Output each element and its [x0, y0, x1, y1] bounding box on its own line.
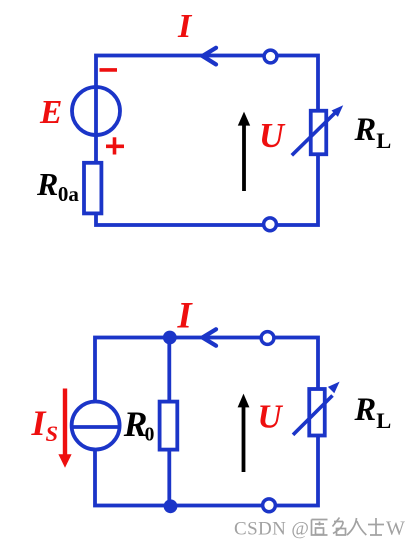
svg-text:W: W — [386, 518, 405, 540]
watermark glyph ren — [347, 518, 366, 535]
terminal node top right circuit 2 — [261, 332, 274, 345]
terminal node bottom right circuit 2 — [263, 499, 276, 512]
variable resistor RL circuit 1 — [292, 105, 343, 155]
terminal node bottom circuit 1 — [264, 218, 277, 231]
current arrowhead I circuit 1 — [203, 48, 217, 65]
terminal node top circuit 1 — [264, 50, 277, 63]
resistor R0a — [84, 163, 101, 214]
polarity minus sign — [100, 68, 118, 72]
svg-text:R0: R0 — [123, 404, 155, 446]
current source IS — [72, 402, 120, 450]
watermark glyph ming — [333, 518, 346, 536]
svg-text:R0a: R0a — [36, 166, 79, 206]
watermark glyph ni — [312, 520, 328, 536]
wire branch R0 circuit 2 — [167, 338, 171, 506]
wire loop circuit 1 (top, right, bottom, left sides) — [96, 56, 318, 226]
current direction arrow IS — [58, 389, 71, 468]
variable resistor RL circuit 2 — [293, 382, 340, 436]
svg-text:U: U — [258, 399, 284, 436]
current arrowhead I circuit 2 — [203, 329, 217, 345]
voltage arrow U circuit 2 — [238, 394, 250, 472]
junction node top circuit 2 — [163, 331, 177, 345]
resistor R0 — [160, 402, 178, 450]
svg-text:RL: RL — [354, 112, 392, 153]
watermark glyph shi — [368, 518, 384, 535]
svg-text:IS: IS — [31, 403, 59, 446]
svg-text:CSDN @: CSDN @ — [234, 519, 309, 540]
voltage arrow U circuit 1 — [238, 112, 250, 191]
voltage source E — [72, 87, 120, 135]
svg-text:E: E — [39, 94, 62, 131]
svg-text:I: I — [177, 295, 194, 336]
svg-text:I: I — [177, 8, 193, 45]
svg-text:U: U — [259, 117, 286, 155]
wire loop circuit 2 (top, right, bottom, left sides) — [95, 338, 318, 506]
svg-text:RL: RL — [354, 392, 392, 433]
junction node bottom circuit 2 — [164, 499, 178, 513]
polarity plus sign — [106, 137, 124, 154]
